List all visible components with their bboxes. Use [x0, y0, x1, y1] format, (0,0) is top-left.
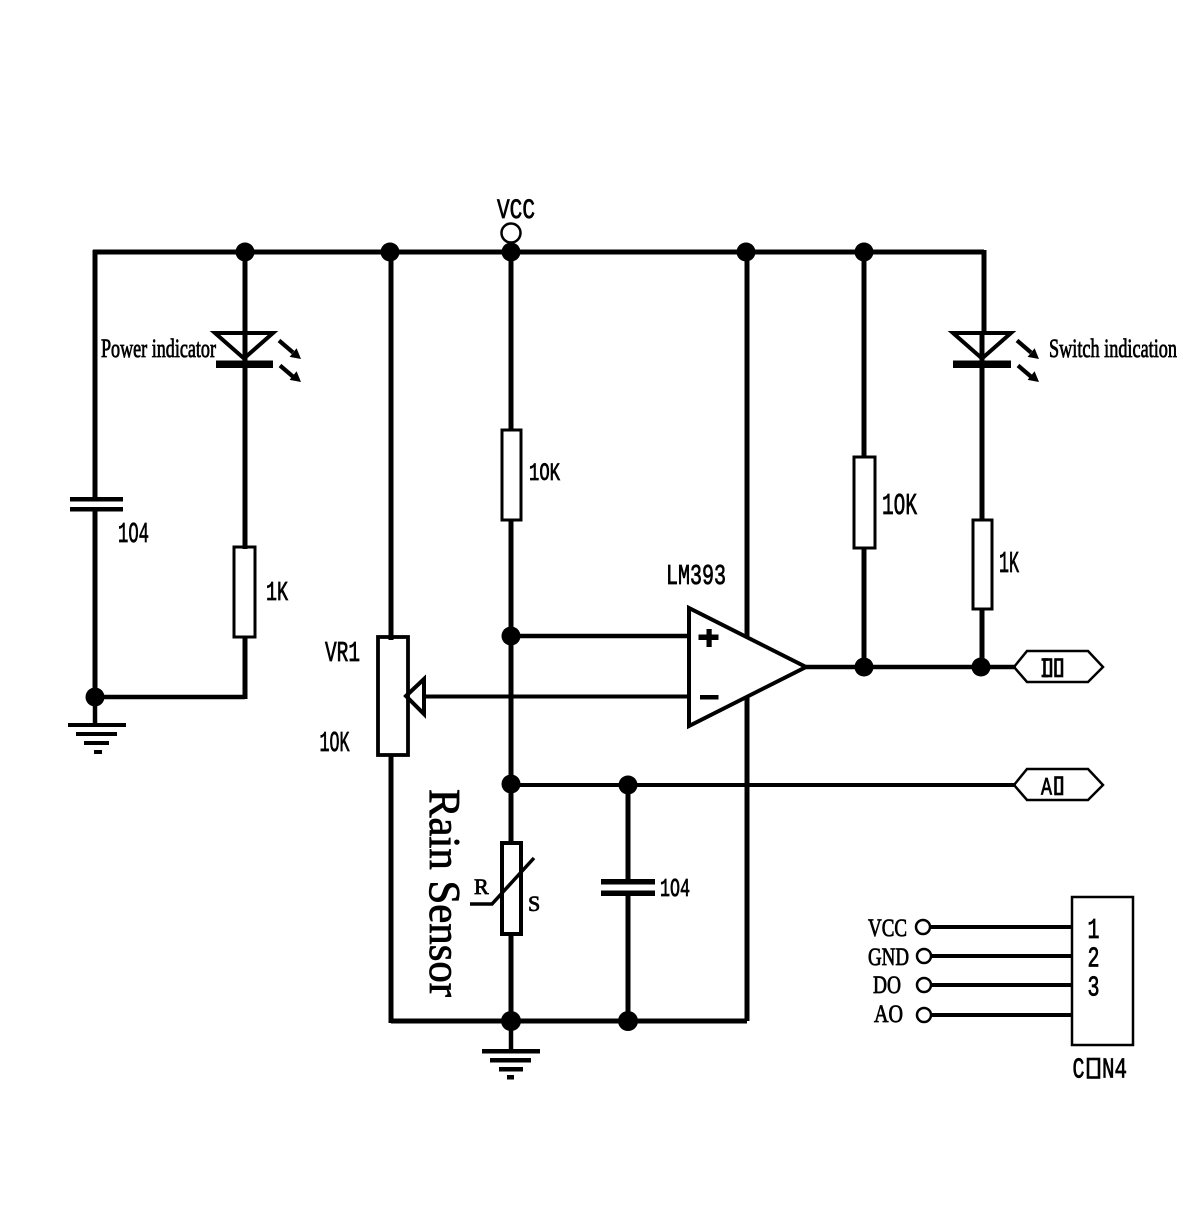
- junction node on rail at VR1 branch: [381, 243, 400, 262]
- svg-text:C: C: [1073, 1054, 1085, 1087]
- wire: middle branch from rail to 10K: [509, 252, 514, 431]
- svg-text:VR1: VR1: [325, 637, 360, 670]
- wire: 10K bottom down through nodes to sensor: [509, 520, 514, 843]
- wire: VR1 bottom to bottom rail: [389, 754, 394, 1023]
- rain sensor element RS: [470, 843, 534, 934]
- label 1K (left): [266, 579, 289, 609]
- svg-text:DO: DO: [873, 972, 901, 999]
- svg-text:Rain Sensor: Rain Sensor: [420, 789, 469, 997]
- net flag AO: [1014, 769, 1103, 803]
- wire: capacitor bottom to ground node: [93, 511, 98, 699]
- wire: right 10K bottom to output: [862, 548, 867, 667]
- svg-text:1OK: 1OK: [529, 459, 560, 488]
- capacitor 104 (left): [70, 497, 123, 512]
- connector pin label VCC: [868, 915, 907, 942]
- wire: AO pin to connector: [931, 1013, 1072, 1017]
- wire: LED cathode to 1K: [243, 362, 248, 549]
- wire: ground node to 1K resistor bottom: [95, 695, 245, 700]
- label VR1: [325, 637, 360, 670]
- svg-text:GND: GND: [868, 944, 909, 971]
- wire: GND pin to connector: [931, 954, 1072, 958]
- connector pin circle AO: [917, 1008, 931, 1022]
- label Rain Sensor (rotated): [420, 789, 469, 997]
- junction node bottom sensor: [501, 1011, 521, 1031]
- junction node AO capacitor tap: [619, 776, 638, 795]
- wire: 1K bottom to ground wire: [243, 637, 248, 699]
- connector pin circle DO: [917, 978, 931, 992]
- connector pin number 2: [1088, 943, 1100, 976]
- VR1 wiper arrow: [406, 679, 689, 714]
- label R (sensor): [474, 874, 489, 899]
- wire: op-amp output: [806, 665, 1016, 670]
- svg-text:LM393: LM393: [666, 560, 726, 593]
- svg-text:Power indicator: Power indicator: [101, 334, 216, 363]
- junction node noninverting input: [502, 627, 521, 646]
- connector pin circle VCC: [916, 920, 930, 934]
- resistor 10K (right): [854, 457, 875, 548]
- svg-text:VCC: VCC: [868, 915, 907, 942]
- connector pin label DO: [873, 972, 901, 999]
- junction node left ground: [86, 688, 105, 707]
- svg-text:R: R: [474, 874, 489, 899]
- wire: LED anode from rail: [243, 252, 248, 362]
- resistor 10K (middle): [502, 430, 521, 520]
- connector pin number 3: [1088, 972, 1100, 1005]
- label LM393: [666, 560, 726, 593]
- wire: LED to 1K: [980, 362, 985, 521]
- wire: 1K to output node: [980, 609, 985, 667]
- label 104 (left capacitor): [118, 518, 149, 551]
- svg-text:S: S: [528, 891, 540, 916]
- junction node AO tap: [502, 775, 521, 794]
- svg-text:AO: AO: [874, 1001, 903, 1028]
- label 1K (right): [999, 547, 1019, 582]
- label 10K (VR1): [320, 727, 350, 760]
- label Power indicator: [101, 334, 216, 363]
- connector pin label GND: [868, 944, 909, 971]
- LED D2 switch indication: [953, 333, 1039, 382]
- resistor 1K (right): [973, 520, 992, 609]
- wire: capacitor 104 branch from AO node: [626, 785, 631, 881]
- connector pin circle GND: [917, 949, 931, 963]
- svg-text:A: A: [1041, 774, 1052, 803]
- wire: VR1 top from rail: [389, 252, 394, 640]
- wire: sensor bottom to bottom rail: [509, 934, 514, 1023]
- connector pin number 1: [1088, 914, 1100, 947]
- wire: right 10K from rail: [862, 252, 867, 458]
- wire: left branch down to capacitor: [93, 250, 98, 498]
- svg-text:VCC: VCC: [497, 196, 535, 227]
- potentiometer VR1 body: [378, 637, 408, 755]
- ground symbol (left): [68, 697, 126, 754]
- LED D1 power indicator: [215, 333, 301, 382]
- label VCC (top): [497, 196, 535, 227]
- wire: top VCC rail: [93, 250, 984, 255]
- connector CON4 body: [1072, 897, 1133, 1045]
- svg-text:1OK: 1OK: [882, 489, 917, 524]
- svg-text:1OK: 1OK: [320, 727, 350, 760]
- wire: to op-amp + input: [511, 634, 689, 639]
- label 10K (middle): [529, 459, 560, 488]
- svg-text:1K: 1K: [999, 547, 1019, 582]
- wire: DO pin to connector: [931, 983, 1072, 987]
- op-amp U1 LM393: [689, 608, 806, 726]
- wire: bottom rail: [391, 1019, 747, 1024]
- net flag DO: [1014, 651, 1103, 682]
- label Switch indication: [1049, 334, 1177, 363]
- svg-text:Switch indication: Switch indication: [1049, 334, 1177, 363]
- ground symbol (bottom): [482, 1021, 540, 1080]
- svg-text:N4: N4: [1102, 1054, 1127, 1087]
- junction node on rail at op-amp supply branch: [737, 243, 756, 262]
- capacitor 104 (middle): [601, 879, 655, 896]
- junction node output / 1K: [972, 658, 991, 677]
- wire: op-amp supply vertical through symbol: [745, 252, 750, 1021]
- label 104 (middle): [660, 874, 690, 904]
- wire: rail corner down to switch LED: [982, 250, 984, 362]
- svg-text:1K: 1K: [266, 579, 289, 609]
- junction node on rail at 10K pullup branch: [855, 243, 874, 262]
- svg-text:1O4: 1O4: [660, 874, 690, 904]
- svg-text:1O4: 1O4: [118, 518, 149, 551]
- junction node on rail at VCC terminal: [502, 243, 521, 262]
- resistor 1K (left): [234, 547, 255, 637]
- svg-text:3: 3: [1088, 972, 1100, 1005]
- junction node bottom capacitor: [618, 1011, 638, 1031]
- wire: VCC pin to connector: [930, 925, 1072, 929]
- label CON4: [1073, 1054, 1128, 1087]
- junction node output / 10K: [855, 658, 874, 677]
- power terminal VCC circle: [502, 224, 521, 243]
- wire: capacitor bottom to bottom rail: [626, 893, 631, 1023]
- junction node on rail at LED branch: [236, 243, 255, 262]
- connector pin label AO: [874, 1001, 903, 1028]
- label 10K (right): [882, 489, 917, 524]
- wire: AO line: [511, 783, 1016, 787]
- label S (sensor): [528, 891, 540, 916]
